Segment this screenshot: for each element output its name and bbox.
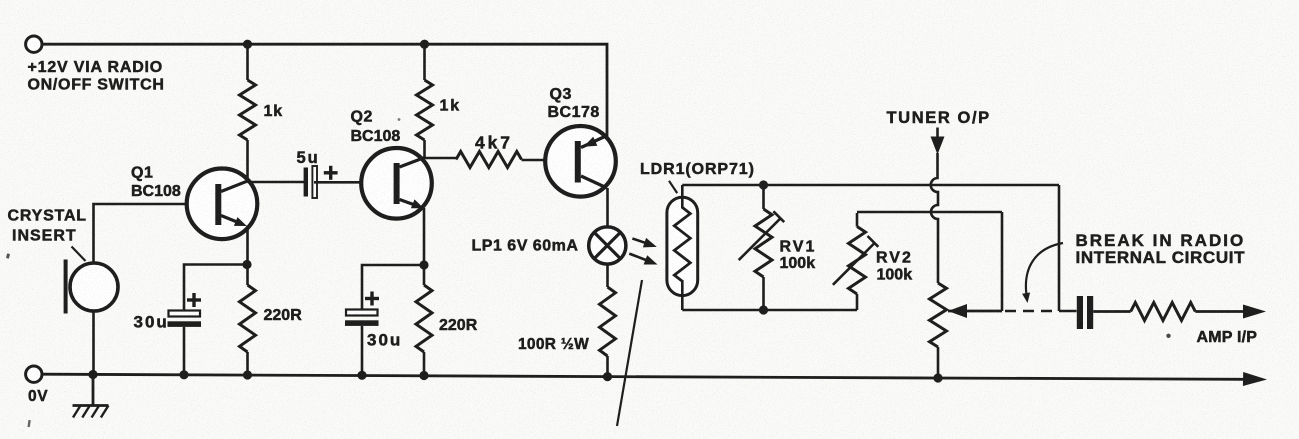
junction 30u on rail bbox=[179, 370, 188, 379]
wire: Q2 collector to 4k7 node bbox=[425, 157, 457, 160]
junction top rail / 1k bbox=[243, 40, 252, 49]
LDR1 internal resistor bbox=[674, 207, 690, 281]
top bus wire (attenuator) y=185 bbox=[682, 184, 1059, 187]
wire: LDR bottom bbox=[681, 280, 684, 310]
resistor 100R 1/2W bbox=[606, 264, 609, 287]
wire: LDR top bbox=[681, 185, 684, 209]
pointer line to crystal bbox=[72, 247, 86, 262]
junction volume pot on rail bbox=[933, 373, 942, 382]
crystal insert earpiece symbol bbox=[70, 263, 118, 311]
junction RV1 top bbox=[759, 180, 768, 189]
lamp LP1 bbox=[589, 227, 626, 264]
plus sign of 30u second bbox=[365, 297, 379, 300]
wire: 4k7 to Q3 base bbox=[522, 159, 576, 162]
wire: Q3 collector to lamp bbox=[606, 188, 609, 228]
curved callout arrow bbox=[1026, 243, 1063, 295]
junction RV1 bottom bbox=[759, 305, 768, 314]
junction top rail / 1k second bbox=[420, 40, 429, 49]
junction Q1 emitter node bbox=[242, 260, 251, 269]
plus sign of 5u bbox=[324, 171, 338, 174]
potentiometer RV2 bbox=[856, 213, 859, 227]
resistor 220R (Q2 emitter) bbox=[423, 265, 426, 285]
transistor Q2 BC108 bbox=[361, 148, 432, 219]
capacitor (radio coupling) bbox=[1077, 296, 1083, 329]
wire: cap to series resistor bbox=[1093, 310, 1131, 313]
wire down from top bus to capacitor bbox=[1058, 185, 1061, 311]
capacitor 5u (coupling) bbox=[304, 168, 308, 197]
ground (chassis) symbol bbox=[92, 375, 95, 406]
RV2 top wire to tap bbox=[857, 211, 1002, 214]
light arrows lamp to LDR bbox=[632, 239, 648, 244]
annotation diagonal line bbox=[617, 280, 642, 426]
junction 220R on rail bbox=[243, 370, 252, 379]
junction Q2 emitter node bbox=[419, 260, 428, 269]
wire: Q2 emitter down bbox=[423, 208, 426, 265]
wire: Q1 emitter down bbox=[246, 226, 249, 265]
LDR1 envelope bbox=[667, 197, 698, 295]
0V terminal bbox=[26, 366, 42, 382]
tuner wire down with hops over bus wires bbox=[931, 153, 938, 283]
wiper arrow bbox=[948, 304, 967, 318]
tap wire down from RV2 bus bbox=[1001, 212, 1004, 311]
wire: crystal to 0V rail bbox=[92, 310, 95, 375]
resistor 220R (Q1 emitter) bbox=[246, 265, 249, 286]
tuner input arrow bbox=[936, 128, 939, 139]
plus sign of 30u bbox=[187, 298, 201, 301]
capacitor 30u (Q1 emitter bypass) bbox=[184, 265, 247, 312]
series resistor to amp bbox=[1131, 303, 1196, 321]
transistor Q3 BC178 (PNP) bbox=[545, 126, 616, 197]
junction crystal/ground on rail bbox=[88, 370, 97, 379]
wire: Q1 collector node to 5u cap bbox=[248, 181, 305, 184]
pointer line to LDR bbox=[669, 181, 677, 193]
+12V terminal bbox=[26, 36, 42, 52]
junction 220R second on rail bbox=[419, 371, 428, 380]
transistor Q1 BC108 bbox=[187, 169, 258, 240]
wire: 5u to Q2 base bbox=[314, 181, 394, 184]
bottom rail (0V) with arrow bbox=[43, 374, 1244, 379]
resistor 1k (Q2 collector load) bbox=[423, 44, 426, 80]
capacitor 30u (Q2 emitter bypass) bbox=[362, 265, 424, 310]
top rail (+12V supply) bbox=[43, 44, 608, 138]
dashed break segment bbox=[1005, 310, 1058, 313]
bottom bus wire (attenuator) y=310 bbox=[682, 309, 857, 312]
scan speckle overlay bbox=[0, 0, 1, 1]
junction 30u second on rail bbox=[357, 371, 366, 380]
resistor 4k7 bbox=[456, 152, 522, 168]
resistor 1k (Q1 collector load) bbox=[246, 44, 249, 80]
junction 100R on rail bbox=[603, 372, 612, 381]
potentiometer RV1 bbox=[762, 185, 765, 209]
wire to AMP I/P with arrow bbox=[1195, 310, 1243, 313]
small scan marks bbox=[6, 253, 10, 259]
wire: Q1 base to crystal bbox=[94, 204, 216, 264]
volume potentiometer (radio) bbox=[930, 283, 947, 347]
